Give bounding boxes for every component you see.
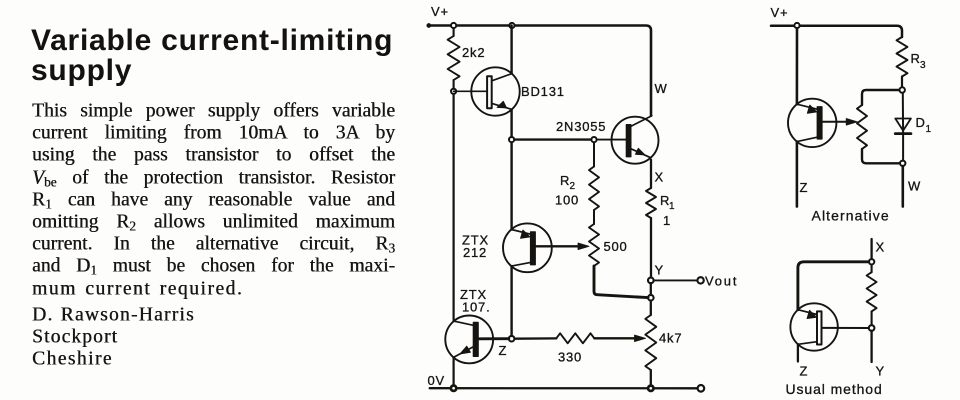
svg-text:0V: 0V	[428, 373, 446, 388]
wire R2 to 500 link	[593, 210, 595, 224]
resistor R2	[555, 167, 599, 211]
transistor Q2 2N3055	[556, 116, 659, 164]
svg-text:X: X	[655, 170, 664, 185]
terminal 0V right	[698, 385, 705, 392]
junction on V+ rail at BD131 collector line	[509, 23, 514, 28]
wire ZTX212 base to 500 wiper arrow	[535, 243, 589, 249]
wire usual Y lead down	[872, 331, 885, 379]
wire BD131 collector column from V+ rail	[510, 26, 512, 74]
junction alternative V+ at Z column	[794, 23, 799, 28]
junction node A (driver emitter / 2N3055 base line)	[509, 137, 514, 142]
junction D1 bottom / pot bottom / W	[900, 161, 905, 166]
wire R3 bottom to junction	[901, 77, 903, 88]
svg-text:500: 500	[604, 239, 628, 254]
svg-text:Z: Z	[499, 343, 508, 358]
node V+ (main supply rail label)	[431, 4, 449, 19]
wire alt Z lead down	[797, 142, 808, 207]
node 0V label	[428, 373, 446, 388]
junction usual X node	[869, 259, 874, 264]
wire R2 top lead	[593, 142, 595, 166]
potentiometer 4k7	[645, 315, 682, 370]
diode D1	[895, 93, 931, 161]
transistor usual-method	[790, 303, 837, 350]
svg-text:X: X	[876, 240, 885, 255]
transistor Q3 ZTX212	[462, 223, 552, 272]
svg-text:Vout: Vout	[705, 274, 738, 289]
svg-text:1: 1	[669, 201, 675, 212]
wire 2N3055 base lead	[597, 139, 627, 141]
junction 500 bottom / 4k7 top	[648, 295, 654, 301]
resistor R3	[897, 37, 927, 77]
wire top V+ rail	[427, 24, 651, 116]
svg-text:D: D	[916, 115, 926, 130]
svg-text:Y: Y	[655, 263, 664, 278]
svg-text:BD131: BD131	[521, 84, 565, 99]
resistor R1	[646, 188, 675, 228]
potentiometer 500	[589, 224, 628, 266]
junction usual Y node	[869, 325, 875, 331]
node X label	[655, 170, 664, 185]
wire junction down to 4k7	[650, 301, 652, 316]
wire alternative V+ rail	[771, 26, 902, 37]
wire alt Z column from V+ junction to transistor emitter	[796, 28, 799, 104]
junction 0V rail at 4k7	[648, 386, 653, 391]
node W label	[655, 81, 668, 96]
svg-text:4k7: 4k7	[659, 331, 682, 346]
wire 4k7 wiper arrow from 330	[594, 335, 645, 341]
wire node A down to ZTX212 emitter	[510, 142, 512, 229]
svg-text:W: W	[655, 81, 668, 96]
wire W lead down	[903, 166, 921, 207]
resistor 2k2	[448, 36, 486, 80]
wire usual base lead to Y node	[822, 327, 869, 329]
svg-text:212: 212	[463, 245, 487, 260]
junction R3 bottom / D1 top / pot top	[900, 87, 905, 92]
junction base node of BD131	[451, 89, 456, 94]
svg-text:3: 3	[920, 60, 926, 71]
wire alt pot bottom to lower junction	[862, 149, 900, 163]
svg-text:V+: V+	[431, 4, 449, 19]
node V+ label (alternative circuit)	[771, 5, 789, 20]
wire ZTX107 base lead to Z	[478, 337, 509, 340]
wire alt base to pot wiper arrow	[822, 119, 857, 125]
resistor usual-method	[867, 272, 877, 311]
wire Y to Vout terminal	[654, 279, 697, 281]
wire Y node down to 500-bottom junction	[650, 283, 652, 295]
terminal Vout	[697, 274, 738, 289]
wire junction to alt pot top	[862, 90, 899, 105]
wire L-bend from 500 bottom to junction	[594, 266, 648, 298]
wire Z node to 330	[514, 337, 556, 340]
label Usual method	[786, 381, 883, 397]
wire 0V rail	[430, 387, 698, 389]
svg-text:V+: V+	[771, 5, 789, 20]
wire 2N3055 emitter to X / R1	[650, 160, 652, 188]
junction node Y	[648, 263, 664, 284]
label Alternative	[812, 208, 890, 224]
wire 4k7 bottom to 0V rail	[650, 370, 652, 385]
transistor Q1 BD131	[454, 67, 565, 115]
svg-text:2: 2	[570, 181, 576, 192]
svg-text:100: 100	[555, 193, 579, 208]
transistor Q4 ZTX107	[445, 287, 493, 363]
wire R1 bottom to node Y	[650, 218, 652, 278]
svg-text:Usual method: Usual method	[786, 381, 883, 397]
junction 0V rail left	[451, 386, 456, 391]
svg-text:Z: Z	[800, 364, 809, 379]
wire BD131 emitter down to node A	[510, 109, 512, 136]
svg-text:Z: Z	[800, 180, 809, 195]
svg-text:Alternative: Alternative	[812, 208, 890, 224]
wire usual X node to resistor	[871, 265, 873, 273]
wire resistor bottom to Y node	[871, 311, 873, 325]
svg-text:107.: 107.	[462, 300, 491, 315]
wire usual X node across and down to emitter	[798, 262, 869, 310]
svg-text:330: 330	[558, 350, 582, 365]
junction R2 top / 2N3055 base	[591, 137, 596, 142]
wire node A to R2 junction	[514, 138, 591, 140]
wire 2k2 bottom lead to base node	[453, 80, 455, 89]
svg-text:Y: Y	[876, 364, 885, 379]
junction node Z	[499, 336, 515, 358]
junction on V+ rail at 2k2	[451, 23, 456, 28]
svg-text:2N3055: 2N3055	[556, 119, 606, 134]
wire ZTX212 collector down to node Z	[510, 266, 512, 336]
svg-text:1: 1	[663, 213, 671, 228]
wire ZTX107 emitter to 0V rail	[453, 358, 455, 386]
resistor 330	[556, 333, 594, 364]
svg-text:W: W	[908, 179, 921, 194]
svg-text:2k2: 2k2	[462, 45, 485, 60]
wire usual-method X lead	[872, 239, 885, 259]
wire left rail from base node down to ZTX107 collector	[453, 94, 455, 321]
wire 2k2 top lead	[453, 28, 455, 36]
svg-text:1: 1	[926, 124, 932, 135]
wire usual Z lead	[798, 344, 808, 378]
potentiometer alternative	[857, 105, 867, 149]
transistor alternative PNP	[788, 99, 836, 147]
